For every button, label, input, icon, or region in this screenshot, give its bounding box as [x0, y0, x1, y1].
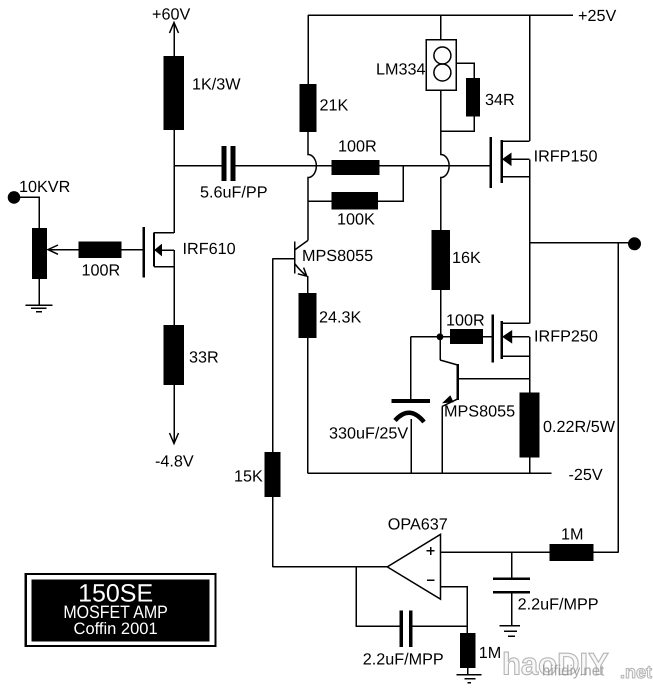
svg-text:LM334: LM334: [376, 61, 426, 79]
svg-text:100R: 100R: [82, 262, 121, 280]
power +60V arrow: [170, 23, 179, 34]
wire IRFP250 drain up: [529, 243, 531, 324]
wire tap to 5.6uF: [174, 165, 222, 167]
resistor R 33R: [164, 325, 185, 385]
ground (right cap): [500, 625, 521, 627]
wire 100R to IRFP150 gate (passes hop): [380, 165, 491, 167]
svg-text:-25V: -25V: [569, 466, 603, 484]
wire 34R bottom to LM334 line: [441, 117, 475, 132]
wire 33R to -4.8V arrow: [173, 385, 175, 444]
title block 150SE: [26, 574, 216, 646]
svg-text:10KVR: 10KVR: [19, 178, 70, 196]
wire emitter to 24.3K: [307, 276, 309, 293]
power -25V rail: [308, 472, 552, 474]
wire output node: [530, 242, 633, 244]
wire 100K left: [308, 200, 331, 202]
svg-text:IRFP150: IRFP150: [534, 147, 598, 165]
wire 21K drop from +25V rail: [307, 15, 309, 84]
resistor R 21K: [300, 84, 317, 132]
wire 100R to IRFP250 gate: [483, 336, 493, 338]
transistor Q IRF610: [144, 227, 174, 278]
wire op-amp output to 15K: [273, 566, 388, 568]
transistor Q MPS8055 (upper): [273, 241, 308, 277]
resistor R 100K: [331, 192, 378, 209]
transistor Q IRFP150: [491, 15, 530, 243]
svg-text:1M: 1M: [561, 525, 584, 543]
wire 15K to op-amp output: [272, 497, 274, 567]
svg-text:IRFP250: IRFP250: [534, 328, 598, 346]
svg-text:+60V: +60V: [152, 6, 190, 24]
svg-text:Coffin 2001: Coffin 2001: [74, 620, 158, 638]
power +25V rail: [308, 14, 573, 16]
wire IRF610 source to 33R: [173, 267, 175, 326]
svg-text:.net: .net: [620, 662, 652, 682]
transistor Q MPS8055 (lower): [440, 337, 530, 473]
potentiometer 10K body: [32, 228, 47, 279]
svg-text:0.22R/5W: 0.22R/5W: [543, 418, 616, 436]
svg-text:-4.8V: -4.8V: [155, 453, 194, 471]
wire 100K right: [378, 166, 403, 202]
wire 21K down with hop over horizontal wire: [308, 132, 316, 241]
svg-text:24.3K: 24.3K: [319, 309, 362, 327]
watermark: [502, 647, 652, 683]
resistor R 100R (top): [331, 160, 379, 175]
svg-text:hifidiy.net: hifidiy.net: [542, 663, 605, 680]
wire 1M to feedback line: [593, 551, 618, 553]
wire LM334 to 34R top: [456, 63, 474, 78]
svg-text:2.2uF/MPP: 2.2uF/MPP: [363, 651, 444, 669]
resistor R 16K: [432, 230, 451, 290]
ground (pot): [26, 304, 53, 306]
svg-text:1M: 1M: [479, 644, 502, 662]
wire +input to 1M: [441, 551, 550, 553]
wire stub to 2.2uF (right): [511, 552, 513, 577]
input terminal node: [8, 191, 21, 204]
wire 100R to IRF610 gate: [122, 249, 144, 251]
wire base to 15K: [272, 259, 274, 453]
svg-text:330uF/25V: 330uF/25V: [329, 425, 408, 443]
resistor R 100R (gate): [78, 242, 121, 258]
resistor R 1M (to ground): [460, 633, 475, 668]
node junction dot: [437, 333, 444, 340]
potentiometer wiper arrow: [48, 245, 58, 254]
wire 0.22R to -25V rail: [529, 458, 531, 474]
wire 5.6uF to 100R: [236, 165, 332, 167]
wire 1K/3W to IRF610 drain: [173, 130, 175, 233]
svg-text:100R: 100R: [338, 138, 377, 156]
wire input to pot: [14, 197, 39, 228]
wire 2.2uF to ground: [511, 593, 513, 625]
wire junction to 100R and 330uF: [411, 336, 451, 338]
svg-text:MPS8055: MPS8055: [444, 403, 515, 421]
svg-text:OPA637: OPA637: [388, 515, 448, 533]
wire output junction to 2.2uF (left): [356, 567, 400, 627]
resistor R 15K: [265, 452, 281, 497]
wire 16K to junction: [440, 290, 442, 337]
svg-text:+25V: +25V: [578, 7, 616, 25]
svg-text:34R: 34R: [485, 91, 515, 109]
svg-text:100R: 100R: [446, 312, 485, 330]
transistor Q IRFP250: [493, 315, 530, 393]
svg-text:IRF610: IRF610: [183, 240, 236, 258]
svg-text:16K: 16K: [452, 249, 481, 267]
resistor R 34R: [466, 78, 480, 117]
wire 1M to ground: [467, 668, 469, 674]
resistor R 100R (lower): [450, 329, 483, 344]
svg-text:21K: 21K: [320, 97, 349, 115]
svg-text:MOSFET AMP: MOSFET AMP: [63, 602, 168, 622]
output terminal node: [628, 237, 641, 250]
resistor R 24.3K: [298, 293, 316, 338]
wire 24.3K to -25V rail: [307, 338, 309, 473]
svg-text:15K: 15K: [234, 468, 263, 486]
wire feedback down right side: [617, 243, 619, 553]
current source LM334: [426, 15, 456, 90]
wire -input down: [441, 587, 468, 634]
wire wiper to 100R: [48, 249, 78, 251]
power -4.8V arrow: [170, 433, 179, 444]
svg-text:33R: 33R: [189, 349, 219, 367]
capacitor C 2.2uF/MPP (left): [400, 610, 404, 647]
capacitor C 330uF/25V: [391, 337, 429, 473]
wire LM334 down with hop: [441, 90, 449, 230]
svg-text:2.2uF/MPP: 2.2uF/MPP: [518, 596, 599, 614]
svg-text:1K/3W: 1K/3W: [192, 76, 241, 94]
svg-text:5.6uF/PP: 5.6uF/PP: [200, 184, 268, 202]
ground (1M): [457, 674, 482, 676]
capacitor C 5.6uF/PP: [222, 146, 227, 181]
wire +60V to 1K/3W: [173, 23, 175, 57]
op-amp U OPA637: [387, 534, 440, 599]
resistor R 0.22R/5W: [520, 393, 540, 458]
wire pot to ground: [38, 279, 40, 305]
svg-text:100K: 100K: [337, 211, 375, 229]
svg-text:MPS8055: MPS8055: [302, 247, 373, 265]
capacitor C 2.2uF/MPP (right): [493, 577, 530, 580]
wire 2.2uF to 1M node: [413, 625, 468, 627]
resistor R 1M (feedback): [549, 544, 593, 561]
resistor R 1K/3W: [164, 56, 185, 130]
